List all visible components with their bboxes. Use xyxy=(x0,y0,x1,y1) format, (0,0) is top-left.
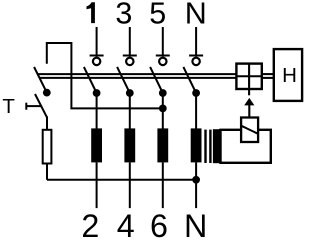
wire pole3 (L2) mid xyxy=(129,93,131,129)
wire test blade to resistor xyxy=(46,116,48,129)
CT primary winding pole1 (L1) xyxy=(91,128,102,162)
svg-text:4: 4 xyxy=(117,208,135,239)
junction dot on pole5 xyxy=(159,105,167,113)
terminal circle pole3 (L2) xyxy=(126,58,133,65)
trip linkage arrow head xyxy=(244,98,254,106)
svg-text:N: N xyxy=(184,208,207,239)
switch blade pole1 (L1) xyxy=(84,67,97,93)
CT core line left xyxy=(204,130,206,163)
terminal circle pole1 (L1) xyxy=(93,58,100,65)
mechanical coupling bus upper line xyxy=(37,73,236,75)
wire poleN top lead xyxy=(195,27,197,57)
terminal clamp bar pole1 (L1) xyxy=(90,55,104,57)
test circuit top wire (hook from aux contact over to pole5) xyxy=(47,43,163,108)
coupling link to H upper line xyxy=(262,73,274,75)
aux switch blade xyxy=(34,67,47,93)
wire pole1 (L1) mid xyxy=(96,93,98,129)
test resistor xyxy=(43,130,52,164)
test circuit bottom wire to N xyxy=(47,179,196,181)
wire pole5 (L3) top lead xyxy=(162,27,164,57)
moving contact dot pole5 (L3) xyxy=(159,89,167,97)
junction dot on poleN xyxy=(192,176,200,184)
switch blade pole5 (L3) xyxy=(150,67,163,93)
svg-text:H: H xyxy=(282,64,297,87)
wire pole1 (L1) top lead xyxy=(96,27,98,57)
aux contact dot xyxy=(43,89,51,97)
moving contact dot pole3 (L2) xyxy=(126,89,134,97)
mechanical coupling bus lower line xyxy=(39,77,236,79)
terminal clamp bar pole5 (L3) xyxy=(156,55,170,57)
trip linkage arrow shaft xyxy=(248,105,250,119)
moving contact dot poleN xyxy=(192,89,200,97)
wire pole5 (L3) bottom lead xyxy=(162,162,164,208)
terminal label 1 xyxy=(87,2,95,23)
trip mechanism cross vertical xyxy=(248,64,250,96)
test button actuator tick xyxy=(25,103,27,110)
wire pole5 (L3) mid xyxy=(162,93,164,129)
relay armature box xyxy=(241,118,258,143)
trip relay body xyxy=(221,130,271,163)
CT primary winding pole3 (L2) xyxy=(124,128,135,162)
CT primary winding pole5 (L3) xyxy=(157,128,168,162)
wire pole1 (L1) bottom lead xyxy=(96,162,98,208)
CT core line right xyxy=(209,130,211,163)
svg-text:N: N xyxy=(185,0,207,31)
test button actuator link xyxy=(26,105,40,107)
svg-text:T: T xyxy=(2,95,15,118)
wire resistor to bottom xyxy=(46,164,48,180)
switch blade poleN xyxy=(183,67,196,93)
terminal circle poleN xyxy=(192,58,199,65)
svg-text:3: 3 xyxy=(115,0,132,31)
moving contact dot pole1 (L1) xyxy=(93,89,101,97)
wire poleN bottom lead xyxy=(195,162,197,208)
terminal clamp bar poleN xyxy=(189,55,203,57)
trip mechanism cross horizontal xyxy=(236,75,261,77)
svg-text:2: 2 xyxy=(81,208,99,239)
CT secondary winding xyxy=(213,129,221,163)
CT primary winding poleN xyxy=(191,128,202,162)
coupling link to H lower line xyxy=(262,77,274,79)
terminal clamp bar pole3 (L2) xyxy=(123,55,137,57)
svg-text:5: 5 xyxy=(149,0,166,31)
terminal circle pole5 (L3) xyxy=(159,58,166,65)
svg-text:6: 6 xyxy=(150,208,168,239)
handle box H xyxy=(274,49,302,101)
relay armature diagonal xyxy=(241,126,258,134)
wire pole3 (L2) bottom lead xyxy=(129,162,131,208)
wire poleN mid xyxy=(195,93,197,129)
switch blade pole3 (L2) xyxy=(117,67,130,93)
test button blade xyxy=(35,94,47,117)
trip mechanism box xyxy=(236,64,261,89)
wire pole3 (L2) top lead xyxy=(129,27,131,57)
